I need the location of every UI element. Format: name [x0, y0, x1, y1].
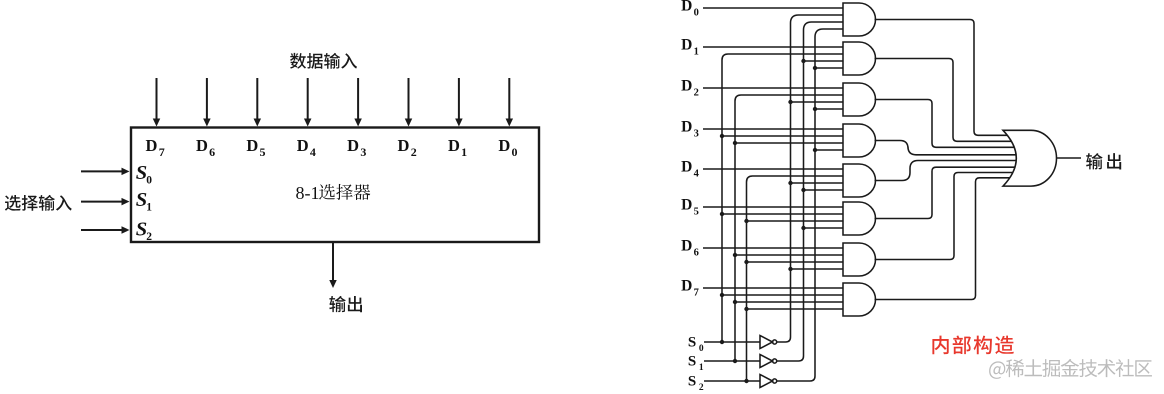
- svg-text:1: 1: [461, 145, 467, 159]
- svg-text:0: 0: [146, 175, 152, 187]
- svg-text:3: 3: [694, 129, 699, 140]
- svg-text:D: D: [681, 0, 692, 15]
- svg-text:D: D: [297, 136, 309, 155]
- svg-text:0: 0: [512, 145, 518, 159]
- svg-text:D: D: [347, 136, 359, 155]
- svg-text:2: 2: [146, 231, 152, 243]
- svg-text:5: 5: [694, 207, 699, 218]
- svg-text:7: 7: [159, 145, 165, 159]
- svg-text:2: 2: [699, 383, 704, 393]
- svg-text:5: 5: [260, 145, 266, 159]
- svg-text:1: 1: [699, 363, 704, 373]
- svg-text:S: S: [688, 374, 696, 390]
- svg-text:D: D: [498, 136, 510, 155]
- svg-text:D: D: [681, 119, 692, 136]
- svg-text:4: 4: [310, 145, 316, 159]
- svg-text:0: 0: [694, 8, 699, 19]
- svg-text:D: D: [681, 78, 692, 95]
- svg-text:D: D: [448, 136, 460, 155]
- svg-text:D: D: [146, 136, 158, 155]
- svg-text:D: D: [398, 136, 410, 155]
- svg-text:8-1: 8-1: [296, 183, 320, 203]
- svg-text:4: 4: [694, 169, 700, 180]
- svg-text:D: D: [681, 37, 692, 54]
- svg-text:2: 2: [411, 145, 417, 159]
- svg-text:7: 7: [694, 288, 699, 299]
- svg-text:D: D: [681, 238, 692, 255]
- svg-text:6: 6: [694, 248, 699, 259]
- svg-text:D: D: [681, 197, 692, 214]
- svg-text:1: 1: [694, 47, 699, 58]
- svg-text:D: D: [681, 159, 692, 176]
- svg-text:2: 2: [694, 88, 699, 99]
- svg-text:D: D: [681, 278, 692, 295]
- svg-text:3: 3: [360, 145, 366, 159]
- svg-text:D: D: [196, 136, 208, 155]
- svg-text:D: D: [246, 136, 258, 155]
- svg-text:1: 1: [146, 202, 152, 214]
- svg-text:0: 0: [699, 344, 704, 354]
- svg-text:S: S: [688, 335, 696, 351]
- svg-text:6: 6: [209, 145, 215, 159]
- svg-text:S: S: [688, 354, 696, 370]
